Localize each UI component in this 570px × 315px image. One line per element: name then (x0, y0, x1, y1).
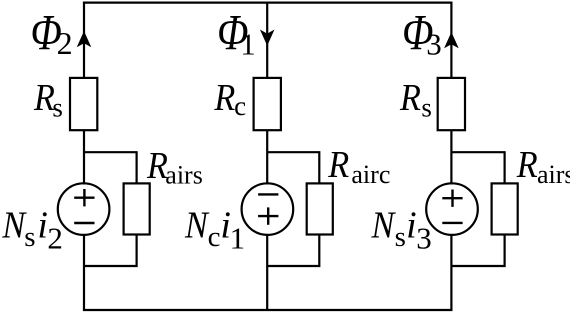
wire left parallel tap bottom (84, 234, 137, 267)
label flux Phi_2 (31, 5, 73, 61)
source N_c i_1 circle (242, 183, 294, 235)
source N_s i_2 circle (58, 183, 110, 235)
svg-text:s: s (24, 221, 35, 253)
svg-text:s: s (421, 93, 432, 123)
label resistor R_airs right (516, 143, 570, 189)
svg-text:i: i (406, 205, 417, 247)
label resistor R_s right (399, 77, 432, 123)
resistor R_airs left box (124, 183, 150, 234)
wire top bus (83, 1, 453, 3)
label source N_s i_3 (371, 204, 432, 256)
label resistor R_c (213, 77, 246, 121)
svg-text:1: 1 (240, 26, 256, 61)
label flux Phi_1 (217, 5, 256, 61)
flux arrow phi2 (up) (77, 31, 92, 47)
wire right branch upper (top bus to R_s) (450, 3, 452, 79)
source N_s i_3 circle (426, 183, 478, 235)
wire middle branch lower (source to bottom bus) (266, 235, 268, 311)
svg-text:N: N (371, 204, 397, 246)
label flux Phi_3 (402, 5, 442, 61)
minus sign middle source (258, 193, 278, 195)
svg-text:N: N (184, 204, 210, 246)
plus sign left source (74, 189, 94, 206)
resistor R_s left box (70, 78, 97, 130)
wire middle parallel tap bottom (267, 234, 319, 267)
wire middle branch upper (top bus to R_c) (266, 3, 268, 79)
svg-text:s: s (395, 221, 406, 253)
svg-text:R: R (327, 143, 349, 185)
minus sign right source (442, 222, 462, 224)
svg-text:c: c (234, 91, 246, 121)
wire left branch lower (source to bottom bus) (83, 235, 85, 311)
wire middle parallel tap top (267, 152, 319, 184)
svg-text:R: R (213, 77, 235, 119)
wire bottom bus (83, 309, 453, 311)
label source N_c i_1 (184, 204, 245, 256)
svg-text:airs: airs (165, 161, 203, 190)
wire right branch middle (R_s to source) (450, 130, 452, 185)
svg-text:R: R (399, 77, 421, 119)
svg-text:i: i (37, 205, 48, 247)
label resistor R_airc (327, 143, 390, 189)
plus sign right source (442, 190, 462, 207)
resistor R_c box (254, 78, 281, 130)
minus sign left source (74, 222, 94, 224)
svg-text:airs: airs (537, 160, 570, 189)
label source N_s i_2 (1, 204, 62, 256)
svg-text:c: c (208, 221, 221, 253)
label resistor R_airs left (146, 144, 203, 189)
resistor R_airc box (307, 183, 333, 234)
svg-text:3: 3 (416, 220, 432, 255)
wire middle branch middle (R_c to source) (266, 130, 268, 185)
svg-text:s: s (52, 93, 63, 123)
plus sign middle source (258, 207, 278, 224)
label resistor R_s left (33, 77, 63, 123)
svg-text:1: 1 (230, 220, 246, 255)
wire left branch middle (R_s to source) (83, 130, 85, 185)
svg-text:2: 2 (57, 25, 73, 61)
wire left parallel tap top (84, 152, 137, 184)
svg-text:3: 3 (426, 26, 442, 61)
wire right branch lower (source to bottom bus) (450, 235, 452, 311)
wire right parallel tap bottom (451, 234, 504, 267)
svg-text:N: N (1, 204, 27, 246)
resistor R_airs right box (492, 183, 518, 234)
svg-text:airc: airc (351, 160, 390, 189)
svg-text:R: R (516, 143, 538, 185)
flux arrow phi3 (up) (444, 32, 459, 48)
flux arrow phi1 (down) (260, 30, 275, 46)
wire left branch upper (top bus to R_s) (83, 3, 85, 79)
resistor R_s right box (438, 78, 465, 130)
wire right parallel tap top (451, 152, 504, 184)
svg-text:2: 2 (47, 220, 63, 255)
